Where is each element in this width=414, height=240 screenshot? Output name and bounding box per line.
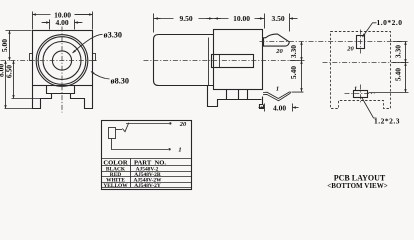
svg-text:YELLOW: YELLOW	[103, 183, 128, 189]
svg-text:5.40: 5.40	[289, 66, 298, 79]
svg-text:10.00: 10.00	[233, 14, 250, 23]
svg-text:<BOTTOM VIEW>: <BOTTOM VIEW>	[327, 182, 387, 190]
svg-text:20: 20	[275, 48, 283, 55]
svg-text:ø3.30: ø3.30	[104, 31, 122, 40]
svg-text:AJ548V-2Y: AJ548V-2Y	[134, 183, 161, 189]
svg-text:3.50: 3.50	[271, 14, 284, 23]
svg-text:1: 1	[354, 86, 357, 93]
svg-text:9.50: 9.50	[179, 14, 192, 23]
svg-text:20: 20	[179, 121, 187, 128]
svg-text:4.00: 4.00	[55, 18, 68, 27]
svg-text:ø8.30: ø8.30	[111, 77, 129, 86]
svg-text:1.2*2.3: 1.2*2.3	[374, 116, 400, 125]
svg-text:1: 1	[276, 86, 279, 93]
svg-text:6.50: 6.50	[4, 65, 13, 78]
svg-text:5.00: 5.00	[0, 39, 9, 52]
svg-text:1: 1	[178, 147, 181, 154]
svg-text:3.30: 3.30	[289, 45, 298, 58]
svg-text:3.30: 3.30	[394, 45, 403, 58]
svg-text:20: 20	[346, 46, 354, 53]
svg-text:1.0*2.0: 1.0*2.0	[377, 18, 403, 27]
svg-text:5.40: 5.40	[394, 68, 403, 81]
svg-text:4.00: 4.00	[273, 104, 286, 113]
